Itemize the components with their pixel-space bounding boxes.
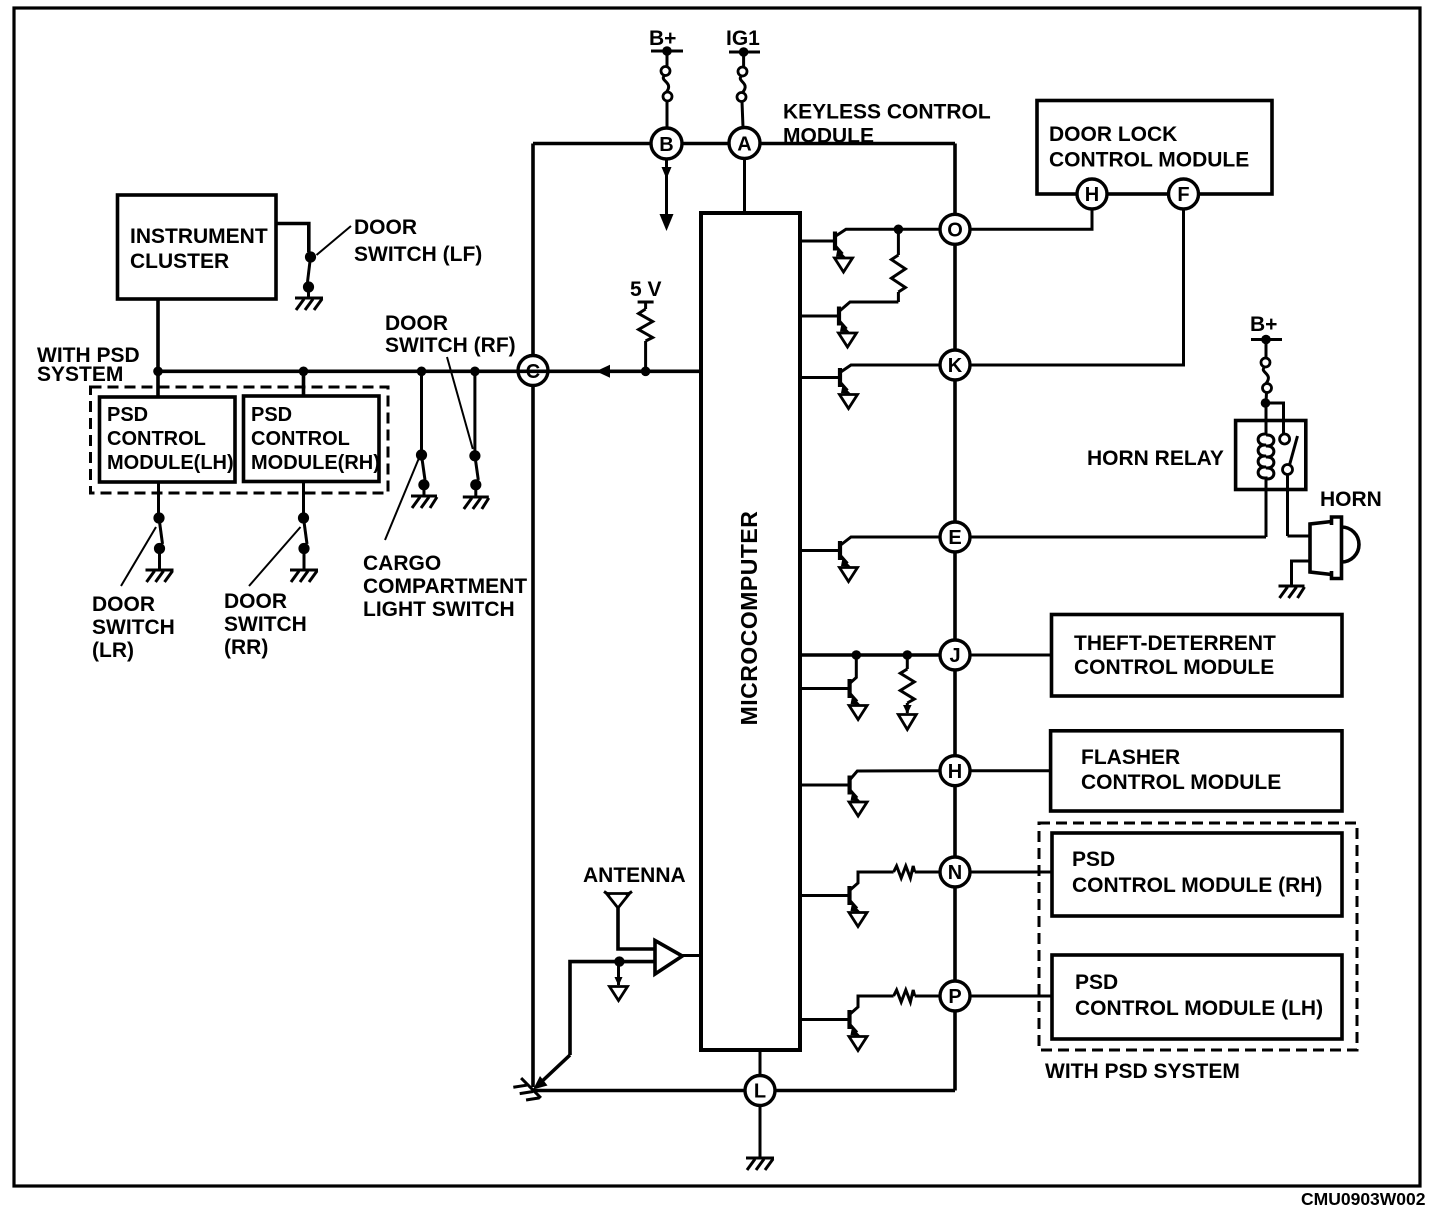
B+ supply bar and junction dot: [651, 46, 683, 66]
label: PSD CONTROL MODULE(RH): [251, 404, 380, 474]
label: PSD CONTROL MODULE (RH): [1072, 848, 1322, 897]
node B: [651, 128, 682, 159]
svg-text:SYSTEM: SYSTEM: [37, 363, 123, 386]
wire: node L to ground: [759, 1106, 762, 1158]
microcomputer U1 box: [701, 213, 800, 1050]
wire: second amplifier input: [570, 962, 655, 1055]
amplifier (antenna buffer): [655, 941, 682, 975]
svg-text:N: N: [948, 862, 962, 884]
arrowhead at bottom-left corner: [533, 1076, 548, 1090]
transistor Q8 (output P): [800, 1010, 867, 1051]
label: DOOR SWITCH (LF): [354, 216, 482, 266]
svg-text:SWITCH: SWITCH: [92, 616, 175, 639]
cargo compartment light switch: [416, 449, 430, 495]
label: DOOR SWITCH (RR): [224, 590, 307, 659]
svg-text:DOOR LOCK: DOOR LOCK: [1049, 123, 1177, 146]
node J on bus: [940, 640, 970, 670]
wire: resistor to transistor Q2 collector: [839, 302, 898, 312]
svg-text:HORN RELAY: HORN RELAY: [1087, 447, 1224, 470]
label line to DOOR SWITCH (RR): [249, 527, 301, 586]
ground (cargo switch): [411, 496, 437, 508]
wire: amplifier output to microcomputer: [682, 954, 701, 957]
antenna symbol: [604, 892, 632, 909]
arrow stub below node B: [660, 159, 674, 231]
wire: J row from microcomputer to node J and theft-deterrent module: [800, 653, 1052, 657]
wire: trunk down to cargo compartment light switch: [420, 371, 423, 450]
node K on bus: [940, 350, 970, 380]
wire: transistor Q4 collector to node E and horn relay coil: [840, 537, 1266, 546]
transistor Q7 (output N): [800, 886, 867, 927]
label line to DOOR SWITCH (LF): [317, 226, 352, 255]
svg-text:O: O: [947, 220, 963, 242]
svg-text:HORN: HORN: [1320, 488, 1382, 511]
resistor on O row: [891, 229, 905, 302]
horn speaker symbol: [1310, 517, 1359, 579]
label: FLASHER CONTROL MODULE: [1081, 746, 1281, 794]
label line to CARGO COMPARTMENT LIGHT SWITCH: [385, 458, 419, 540]
wire: instrument cluster down to trunk and PSD LH: [156, 299, 160, 397]
stub and ground triangle below amplifier input: [610, 962, 628, 1001]
arrow on trunk wire pointing left: [596, 365, 610, 378]
transistor Q2: [800, 307, 857, 348]
wire: transistor Q3 collector to node K and door lock F: [840, 209, 1184, 373]
svg-text:WITH PSD SYSTEM: WITH PSD SYSTEM: [1045, 1060, 1240, 1083]
svg-text:CONTROL MODULE: CONTROL MODULE: [1081, 771, 1281, 794]
fuse (B+ feed): [661, 67, 672, 129]
label: WITH PSD SYSTEM (left): [37, 344, 140, 386]
fuse (IG1 feed): [737, 67, 747, 128]
ground (horn): [1279, 586, 1305, 598]
instrument cluster box: [118, 195, 277, 299]
svg-text:5 V: 5 V: [630, 278, 662, 301]
wire: bottom line from ground corner through node L to bus: [533, 1089, 955, 1093]
node O on bus: [940, 214, 970, 244]
wire: PSD RH box down to door switch RR: [302, 482, 305, 514]
svg-text:FLASHER: FLASHER: [1081, 746, 1180, 769]
svg-text:J: J: [949, 645, 960, 667]
transistor Q1 (output O): [800, 232, 853, 273]
junction dot on trunk (cargo switch): [417, 367, 427, 377]
svg-text:CARGO: CARGO: [363, 552, 441, 575]
label: DOOR LOCK CONTROL MODULE: [1049, 123, 1249, 172]
PSD control module (LH) box (right): [1052, 955, 1342, 1039]
transistor Q6 (output H): [800, 776, 867, 817]
wire: B+ to relay coil and contact: [1266, 403, 1284, 434]
IG1 supply bar and junction dot: [729, 47, 760, 67]
svg-text:L: L: [754, 1081, 766, 1103]
svg-text:(LR): (LR): [92, 639, 134, 662]
svg-text:IG1: IG1: [726, 27, 760, 50]
svg-text:INSTRUMENT: INSTRUMENT: [130, 225, 268, 248]
wire and resistor: transistor Q8 collector to node P and PSD LH module: [850, 990, 1053, 1015]
relay contact: [1280, 434, 1298, 536]
wire: main horizontal bus from left riser through B and A to right bus top: [533, 142, 955, 146]
svg-text:P: P: [948, 986, 961, 1008]
wire: antenna to amplifier: [618, 908, 655, 949]
relay coil: [1258, 430, 1274, 537]
wire: instrument cluster to door switch LF: [276, 224, 309, 253]
svg-text:A: A: [737, 134, 751, 156]
label: DOOR SWITCH (LR): [92, 593, 175, 662]
svg-text:PSD: PSD: [251, 404, 292, 426]
wire: horn to ground: [1292, 561, 1311, 585]
svg-text:B+: B+: [649, 27, 676, 50]
wire: relay contact to horn: [1288, 535, 1311, 538]
node C: [518, 356, 548, 386]
wire: PSD LH box down to door switch LR: [157, 482, 160, 513]
horn relay box: [1236, 421, 1306, 490]
transistor Q3 (output K): [800, 368, 858, 409]
door lock control module box: [1037, 101, 1272, 195]
ground triangle below J resistor: [898, 715, 916, 730]
svg-text:PSD: PSD: [1072, 848, 1115, 871]
svg-text:SWITCH (LF): SWITCH (LF): [354, 243, 482, 266]
svg-text:CMU0903W002: CMU0903W002: [1301, 1189, 1426, 1208]
transistor Q5 (output J): [800, 679, 867, 720]
svg-text:PSD: PSD: [107, 404, 148, 426]
node A: [729, 128, 760, 159]
label line to DOOR SWITCH (LR): [121, 527, 156, 586]
node H on bus: [940, 756, 970, 786]
PSD control module (LH) box: [100, 397, 236, 482]
svg-text:DOOR: DOOR: [224, 590, 287, 613]
flasher control module box: [1051, 731, 1342, 811]
wire: node A down to microcomputer: [743, 159, 746, 214]
door switch (LF): [303, 251, 316, 297]
svg-text:MICROCOMPUTER: MICROCOMPUTER: [736, 511, 762, 726]
svg-text:DOOR: DOOR: [92, 593, 155, 616]
svg-text:SWITCH (RF): SWITCH (RF): [385, 334, 516, 357]
transistor Q4 (output E): [800, 541, 858, 582]
svg-text:COMPARTMENT: COMPARTMENT: [363, 575, 527, 598]
node P on bus: [940, 981, 970, 1011]
svg-text:THEFT-DETERRENT: THEFT-DETERRENT: [1074, 632, 1276, 655]
svg-text:MODULE(LH): MODULE(LH): [107, 452, 234, 474]
junction dot on O row: [894, 225, 904, 235]
wire: left vertical riser: [531, 144, 535, 1088]
label: INSTRUMENT CLUSTER: [130, 225, 268, 273]
junction dot on trunk (RF switch): [470, 367, 480, 377]
ground (door switch LR): [146, 570, 174, 582]
svg-text:CONTROL: CONTROL: [107, 428, 206, 450]
wire: diagonal to bottom-left ground corner: [537, 1055, 570, 1086]
svg-text:MODULE(RH): MODULE(RH): [251, 452, 380, 474]
node H (door lock module): [1077, 179, 1107, 209]
PSD control module (RH) box: [244, 396, 380, 482]
svg-text:B: B: [659, 134, 673, 156]
svg-text:PSD: PSD: [1075, 971, 1118, 994]
wire: transistor Q6 collector to node H and flasher module: [850, 771, 1051, 780]
door switch (LR): [153, 512, 165, 569]
junction dot on trunk (PSD RH): [299, 367, 309, 377]
label: CARGO COMPARTMENT LIGHT SWITCH: [363, 552, 527, 621]
resistor on J row to ground: [900, 655, 914, 714]
PSD control module (RH) box (right): [1052, 833, 1342, 916]
ground (door switch RR): [290, 570, 318, 582]
label: DOOR SWITCH (RF): [385, 312, 516, 357]
svg-text:CONTROL MODULE: CONTROL MODULE: [1049, 149, 1249, 172]
wire: trunk down to door switch RF: [473, 371, 476, 451]
svg-text:H: H: [948, 761, 962, 783]
svg-text:SWITCH: SWITCH: [224, 613, 307, 636]
dashed box: with PSD system (left): [91, 387, 389, 493]
svg-text:LIGHT SWITCH: LIGHT SWITCH: [363, 598, 515, 621]
svg-text:DOOR: DOOR: [354, 216, 417, 239]
resistor: 5V pull-up: [638, 302, 654, 367]
svg-text:ANTENNA: ANTENNA: [583, 864, 686, 887]
wire: right vertical bus: [953, 144, 957, 1091]
svg-text:DOOR: DOOR: [385, 312, 448, 335]
wire: microcomputer bottom to node L: [759, 1050, 762, 1076]
junction dot on trunk (instrument cluster): [153, 367, 163, 377]
svg-text:E: E: [948, 527, 961, 549]
wire: main trunk line (door switches to microcomputer): [158, 369, 701, 373]
svg-text:CONTROL MODULE: CONTROL MODULE: [1074, 656, 1274, 679]
fuse (horn relay feed): [1261, 358, 1272, 403]
door switch (RF): [469, 450, 481, 496]
wire and resistor: transistor Q7 collector to node N and PSD RH module: [850, 866, 1053, 891]
label: PSD CONTROL MODULE(LH): [107, 404, 234, 474]
junction dot on amplifier input: [614, 956, 624, 966]
junction dot: 5V divider on trunk: [641, 367, 651, 377]
ground (node L): [746, 1158, 774, 1170]
label line to DOOR SWITCH (RF): [447, 357, 473, 449]
svg-text:K: K: [948, 355, 963, 377]
node E on bus: [940, 522, 970, 552]
wire: trunk to PSD RH box: [302, 371, 306, 396]
svg-text:CONTROL: CONTROL: [251, 428, 350, 450]
dashed box: with PSD system (right): [1039, 823, 1357, 1050]
node N on bus: [940, 857, 970, 887]
svg-text:H: H: [1085, 184, 1099, 206]
junction dots on J row: [852, 650, 913, 660]
svg-text:CONTROL MODULE (LH): CONTROL MODULE (LH): [1075, 997, 1323, 1020]
label: PSD CONTROL MODULE (LH): [1075, 971, 1323, 1020]
svg-text:MODULE: MODULE: [783, 125, 874, 148]
node F (door lock module): [1169, 179, 1199, 209]
theft-deterrent control module box: [1052, 615, 1343, 697]
wire: transistor collector row to node O and door lock H: [835, 209, 1092, 237]
svg-text:B+: B+: [1250, 313, 1277, 336]
wire: J row dot down to transistor Q5 collector: [850, 655, 857, 684]
ground (bottom-left corner, rotated): [513, 1078, 541, 1106]
svg-text:KEYLESS CONTROL: KEYLESS CONTROL: [783, 101, 991, 124]
label: THEFT-DETERRENT CONTROL MODULE: [1074, 632, 1276, 679]
ground (door switch LF): [295, 298, 323, 310]
node L: [745, 1076, 775, 1106]
junction dot above horn relay: [1261, 398, 1271, 408]
svg-text:F: F: [1177, 184, 1189, 206]
svg-text:CONTROL MODULE (RH): CONTROL MODULE (RH): [1072, 874, 1322, 897]
ground (door switch RF): [463, 497, 489, 509]
B+ supply bar and junction dot (horn relay): [1251, 335, 1282, 358]
label: KEYLESS CONTROL MODULE: [783, 101, 991, 148]
door switch (RR): [298, 512, 310, 569]
svg-text:CLUSTER: CLUSTER: [130, 250, 229, 273]
svg-text:(RR): (RR): [224, 636, 268, 659]
